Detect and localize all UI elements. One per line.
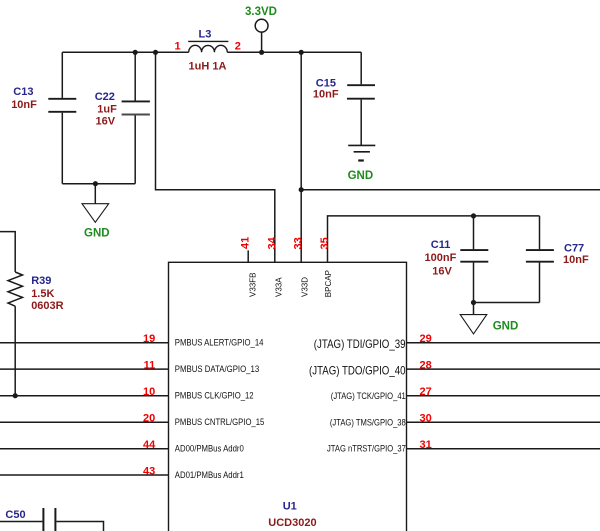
power port 3.3VD <box>255 19 268 52</box>
svg-text:35: 35 <box>319 237 331 249</box>
inductor L3 <box>188 41 228 52</box>
capacitor C11 <box>460 216 488 303</box>
ground earth bars under C15 <box>348 145 375 160</box>
svg-text:30: 30 <box>420 413 432 425</box>
svg-text:JTAG nTRST/GPIO_37: JTAG nTRST/GPIO_37 <box>327 444 406 454</box>
svg-text:PMBUS CLK/GPIO_12: PMBUS CLK/GPIO_12 <box>175 390 254 401</box>
capacitor C22 <box>122 52 150 184</box>
svg-text:U1: U1 <box>283 501 297 513</box>
resistor R39 <box>0 232 23 396</box>
svg-text:28: 28 <box>420 360 432 372</box>
junction cap bottom GND <box>93 181 98 186</box>
svg-text:19: 19 <box>143 333 155 345</box>
svg-text:31: 31 <box>420 439 432 451</box>
wire pin 29 <box>407 342 600 344</box>
svg-text:33: 33 <box>293 237 305 249</box>
svg-text:C22: C22 <box>95 91 115 103</box>
junction C22 top <box>133 50 138 55</box>
svg-text:34: 34 <box>266 236 278 249</box>
capacitor C13 <box>48 52 76 184</box>
wire pin 31 <box>407 448 600 450</box>
svg-text:100nF: 100nF <box>425 252 457 264</box>
svg-text:10nF: 10nF <box>313 88 339 100</box>
wire V33A branch <box>156 52 275 262</box>
svg-text:C50: C50 <box>5 509 25 521</box>
svg-text:PMBUS DATA/GPIO_13: PMBUS DATA/GPIO_13 <box>175 363 259 374</box>
svg-text:(JTAG) TDO/GPIO_40: (JTAG) TDO/GPIO_40 <box>309 364 406 377</box>
wire C15 branch from rail <box>360 52 362 84</box>
svg-text:29: 29 <box>420 333 432 345</box>
svg-text:AD00/PMBus Addr0: AD00/PMBus Addr0 <box>175 443 244 454</box>
svg-text:3.3VD: 3.3VD <box>245 6 277 18</box>
svg-text:C13: C13 <box>13 86 33 98</box>
junction V33D top <box>299 50 304 55</box>
svg-text:UCD3020: UCD3020 <box>268 517 316 529</box>
junction R39 pin10 <box>13 393 18 398</box>
wire rail y190 to right edge <box>301 189 600 191</box>
svg-text:GND: GND <box>84 228 110 240</box>
junction C11 bottom <box>471 300 476 305</box>
svg-text:16V: 16V <box>432 266 452 278</box>
svg-text:(JTAG) TDI/GPIO_39: (JTAG) TDI/GPIO_39 <box>314 338 406 351</box>
junction 3.3VD port <box>259 50 264 55</box>
svg-text:C77: C77 <box>564 242 584 254</box>
IC U1 box <box>169 262 407 531</box>
wire pin 30 <box>407 421 600 423</box>
svg-text:R39: R39 <box>31 275 51 287</box>
svg-text:GND: GND <box>348 170 374 182</box>
svg-text:11: 11 <box>144 360 156 372</box>
svg-text:1: 1 <box>175 41 181 53</box>
ground GND triangle left <box>82 204 109 223</box>
junction BPCAP C11 <box>471 213 476 218</box>
svg-text:V33A: V33A <box>274 277 283 297</box>
svg-text:L3: L3 <box>199 28 212 40</box>
svg-text:1.5K: 1.5K <box>31 288 54 300</box>
svg-text:10nF: 10nF <box>11 99 37 111</box>
svg-text:PMBUS CNTRL/GPIO_15: PMBUS CNTRL/GPIO_15 <box>175 416 264 427</box>
svg-text:10: 10 <box>143 386 155 398</box>
svg-text:0603R: 0603R <box>31 300 63 312</box>
svg-text:PMBUS ALERT/GPIO_14: PMBUS ALERT/GPIO_14 <box>175 337 264 348</box>
svg-text:1uF: 1uF <box>97 103 117 115</box>
svg-text:V33D: V33D <box>301 277 310 297</box>
svg-text:27: 27 <box>420 386 432 398</box>
wire pin 43 <box>0 474 169 476</box>
junction V33A branch top <box>153 50 158 55</box>
capacitor C77 <box>526 216 554 303</box>
svg-text:41: 41 <box>240 237 252 249</box>
ground GND triangle right <box>460 315 487 334</box>
wire top rail left segment <box>62 51 188 53</box>
svg-text:V33FB: V33FB <box>249 273 258 297</box>
svg-text:(JTAG) TMS/GPIO_38: (JTAG) TMS/GPIO_38 <box>330 418 406 428</box>
wire pin 19 <box>0 342 169 344</box>
svg-text:BPCAP: BPCAP <box>324 270 333 297</box>
wire top rail right segment <box>227 51 361 53</box>
wire pin 28 <box>407 368 600 370</box>
wire pin 10 <box>0 395 169 397</box>
svg-text:AD01/PMBus Addr1: AD01/PMBus Addr1 <box>175 469 244 480</box>
svg-text:GND: GND <box>493 321 519 333</box>
wire pin 44 <box>0 448 169 450</box>
wire ground stub <box>94 184 96 204</box>
svg-text:1uH 1A: 1uH 1A <box>189 60 227 72</box>
svg-text:10nF: 10nF <box>563 254 589 266</box>
pin 41 stub V33FB <box>247 250 249 262</box>
wire pin 11 <box>0 368 169 370</box>
junction V33D rail <box>299 187 304 192</box>
svg-text:44: 44 <box>143 439 156 451</box>
svg-text:C11: C11 <box>431 239 451 251</box>
svg-text:20: 20 <box>143 413 155 425</box>
wire C11 C77 bottom rail <box>474 302 540 304</box>
wire cap bottom rail <box>62 183 135 185</box>
wire pin 20 <box>0 421 169 423</box>
svg-text:(JTAG) TCK/GPIO_41: (JTAG) TCK/GPIO_41 <box>331 391 406 401</box>
capacitor C50 <box>0 508 104 531</box>
svg-text:16V: 16V <box>96 115 116 127</box>
svg-text:43: 43 <box>143 465 155 477</box>
capacitor C15 <box>347 85 375 145</box>
wire V33D branch <box>300 52 302 262</box>
wire pin 27 <box>407 395 600 397</box>
svg-text:2: 2 <box>235 41 241 53</box>
wire ground stub right <box>473 303 475 315</box>
wire BPCAP net <box>328 216 540 262</box>
